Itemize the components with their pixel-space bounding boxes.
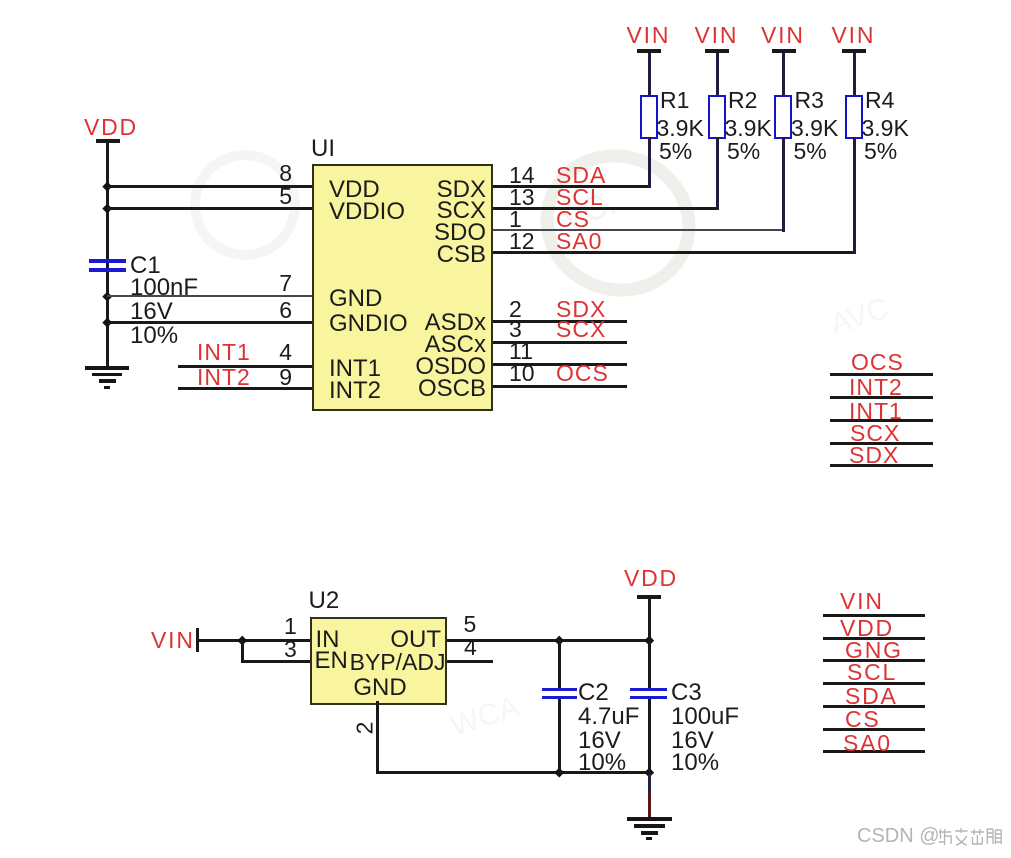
C2 designator label: [578, 683, 609, 703]
wire VIN branch down: [241, 640, 244, 661]
net label OCS: [556, 363, 609, 383]
VDD power bar: [96, 139, 120, 143]
pin number 1: [284, 616, 297, 636]
wire C3 to ground (lower): [648, 793, 651, 819]
ground (bottom): [627, 817, 672, 841]
pin number 2: [509, 299, 522, 319]
net label INT1 (stub): [830, 419, 933, 422]
junction VDD/pin8: [102, 181, 111, 190]
power port VIN (R4): [832, 25, 876, 45]
net label OCS (stub): [830, 373, 933, 376]
C3 tolerance 10%: [671, 753, 719, 773]
wire pin 4 (INT1): [178, 365, 313, 368]
wire CS net: [493, 229, 785, 231]
wire R1 to net: [648, 138, 651, 188]
net label INT1: [197, 342, 251, 362]
net label SCL: [556, 187, 604, 207]
U1 pin name SDX: [400, 180, 486, 200]
pin number 5: [464, 614, 477, 634]
wire VIN to R1: [648, 53, 651, 97]
wire SCX net: [493, 341, 628, 344]
R1 designator label: [660, 90, 689, 110]
C2 value 4.7uF: [578, 707, 639, 727]
junction VDD/pin5: [102, 203, 111, 212]
wire to U2 pin3 (EN): [241, 660, 313, 663]
net label SDX (stub): [830, 464, 933, 467]
pin number 5: [262, 186, 292, 206]
U1 pin name ASDx: [400, 313, 486, 333]
wire SDA net: [493, 185, 651, 188]
wire R3 to net: [782, 138, 785, 232]
wire OSDO net: [493, 363, 628, 366]
R2 designator label: [728, 90, 757, 110]
pin number 9: [262, 367, 292, 387]
pin number 1: [509, 209, 522, 229]
U2 pin name OUT: [380, 630, 441, 650]
resistor R4 body: [845, 95, 863, 139]
pin number 7: [262, 273, 292, 293]
wire SDX net: [493, 320, 628, 323]
pin number 8: [262, 163, 292, 183]
C2 voltage 16V: [578, 731, 621, 751]
pin number 14: [509, 165, 535, 185]
resistor R1 body: [640, 95, 658, 139]
U1 pin name GND: [329, 289, 382, 309]
wire pin 8 (VDD): [107, 185, 313, 188]
pin number 4: [262, 342, 292, 362]
IC U2 body: [310, 617, 447, 705]
R3 tolerance 5%: [794, 141, 827, 161]
pin number 6: [262, 300, 292, 320]
pin number 10: [509, 363, 535, 383]
wire SCL net: [493, 207, 719, 210]
pin number 13: [509, 187, 535, 207]
C1 value 100nF: [130, 278, 198, 298]
junction C1/pin6: [102, 317, 111, 326]
U2 pin name BYP/ADJ: [340, 652, 446, 672]
net label SCL (stub): [823, 682, 925, 685]
wire GND bus bottom: [376, 771, 651, 774]
VIN power bar (R3): [772, 49, 796, 53]
net label SCX (stub): [830, 442, 933, 445]
C1 tolerance 10%: [130, 326, 178, 346]
R4 tolerance 5%: [864, 141, 897, 161]
U1 pin name VDDIO: [329, 202, 405, 222]
U1 pin name SCX: [400, 201, 486, 221]
wire C3 to ground (upper): [648, 774, 651, 793]
R1 tolerance 5%: [659, 141, 692, 161]
C2 tolerance 10%: [578, 753, 626, 773]
junction GND/C2: [555, 768, 564, 777]
VIN power bar (R1): [637, 49, 661, 53]
pin number 11: [509, 341, 533, 361]
R1 value 3.9K: [657, 118, 704, 138]
junction C1/pin7: [102, 291, 111, 300]
junction OUT/C2: [555, 635, 564, 644]
net label VDD (stub): [823, 637, 925, 640]
wire pin 7 (GND): [107, 295, 313, 297]
watermark CSDN @驴友花雕: [857, 826, 940, 846]
decorative faint watermark (not labelled further): [520, 128, 717, 319]
junction VIN branch: [238, 635, 247, 644]
power port VIN (R3): [761, 25, 805, 45]
wire pin 6 (GNDIO): [107, 321, 313, 324]
power port VDD (bottom): [624, 568, 678, 588]
designator U1: [311, 139, 335, 159]
C1 voltage 16V: [130, 302, 173, 322]
VDD power bar (bottom): [637, 595, 661, 599]
net label SA0: [556, 231, 602, 251]
R3 designator label: [795, 90, 824, 110]
pin number 12: [509, 231, 535, 251]
junction GND/C3: [644, 768, 653, 777]
U2 pin name EN: [315, 651, 348, 671]
wire SA0 net: [493, 251, 856, 254]
net label CS (stub): [823, 728, 925, 731]
resistor R3 body: [774, 95, 792, 139]
pin number 3: [509, 319, 522, 339]
C3 designator label: [671, 683, 702, 703]
ground (top-left): [85, 366, 129, 389]
net label SDA (stub): [823, 705, 925, 708]
wire VDD rail vertical: [106, 142, 109, 367]
wire VIN to R3: [782, 53, 785, 97]
wire pin 9 (INT2): [178, 387, 313, 390]
U1 pin name SDO: [400, 223, 486, 243]
pin number 2 (rotated): [354, 722, 374, 735]
net label SDA: [556, 165, 606, 185]
wire pin 5 (VDDIO): [107, 207, 313, 210]
VIN port bar: [196, 628, 200, 652]
U1 pin name VDD: [329, 180, 380, 200]
pin number 3: [284, 639, 297, 659]
C1 designator label: [130, 256, 161, 276]
U1 pin name OSCB: [400, 379, 486, 399]
power port VIN (R2): [695, 25, 739, 45]
R2 tolerance 5%: [727, 141, 760, 161]
U1 pin name ASCx: [400, 335, 486, 355]
R4 designator label: [865, 90, 894, 110]
R3 value 3.9K: [791, 118, 838, 138]
U1 pin name OSDO: [400, 357, 486, 377]
U1 pin name CSB: [400, 245, 486, 265]
R2 value 3.9K: [725, 118, 772, 138]
power port VDD (top-left): [84, 117, 138, 137]
junction OUT/C3/VDD: [644, 635, 653, 644]
C3 voltage 16V: [671, 731, 714, 751]
net label SCX: [556, 319, 606, 339]
net label INT2 (stub): [830, 396, 933, 399]
wire VIN to R2: [716, 53, 719, 97]
net label SDX: [556, 299, 606, 319]
wire VIN to R4: [853, 53, 856, 97]
net label VIN (stub): [823, 614, 925, 617]
resistor R2 body: [708, 95, 726, 139]
wire R4 to net: [853, 138, 856, 254]
wire OCS net: [493, 385, 628, 388]
net label GNG (stub): [823, 659, 925, 662]
VIN power bar (R2): [705, 49, 729, 53]
C3 value 100uF: [671, 707, 739, 727]
wire U2 OUT to VDD: [447, 639, 651, 642]
U1 pin name INT1: [329, 359, 381, 379]
capacitor C2: [542, 640, 577, 773]
capacitor C1: [89, 259, 126, 272]
net label INT2: [197, 367, 251, 387]
IC U1 body: [312, 164, 493, 411]
net label CS: [556, 209, 590, 229]
VIN power bar (R4): [842, 49, 866, 53]
wire U2 BYP/ADJ stub: [447, 660, 494, 663]
power port VIN (R1): [627, 25, 671, 45]
port VIN (bottom-left): [151, 630, 195, 650]
wire R2 to net: [716, 138, 719, 210]
wire VIN to U2 pin1: [199, 639, 313, 642]
wire U2 pin2 (GND) down: [376, 701, 379, 774]
U1 pin name GNDIO: [329, 314, 408, 334]
capacitor C3: [630, 598, 667, 773]
pin number 4: [464, 637, 477, 657]
net label SA0 (stub): [823, 750, 925, 753]
designator U2: [309, 591, 340, 611]
U2 pin name IN: [316, 630, 340, 650]
R4 value 3.9K: [862, 118, 909, 138]
U1 pin name INT2: [329, 381, 381, 401]
U2 pin name GND: [352, 678, 408, 698]
